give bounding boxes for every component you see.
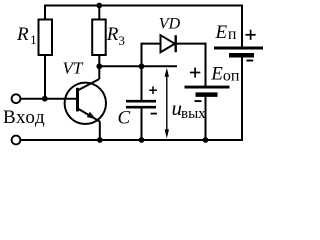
- wire emitter vertical: [99, 121, 101, 140]
- wire R3 bottom lead to collector node: [98, 55, 100, 66]
- node emitter / bottom rail: [97, 137, 103, 143]
- node Eop / bottom rail: [203, 137, 209, 143]
- wire input line to base: [21, 98, 77, 100]
- node capacitor top / diode: [139, 63, 145, 69]
- diode VD: [161, 35, 176, 52]
- transistor VT: [65, 79, 106, 124]
- wire diode cathode horizontal: [176, 43, 207, 45]
- node top of R3: [96, 3, 102, 9]
- svg-text:Eоп: Eоп: [210, 63, 240, 84]
- wire top rail: [45, 5, 242, 7]
- wire capacitor bottom lead: [141, 108, 143, 140]
- minus sign Ep: [246, 60, 253, 62]
- minus sign Eop: [195, 100, 202, 102]
- wire diode anode horizontal: [141, 43, 161, 45]
- svg-text:VD: VD: [159, 16, 181, 33]
- svg-text:C: C: [118, 108, 131, 129]
- wire R1 bottom lead to base line: [44, 55, 46, 99]
- svg-text:VT: VT: [63, 59, 84, 78]
- plus sign C: [149, 86, 157, 94]
- wire Eop top lead: [205, 43, 207, 86]
- node collector / R3: [96, 63, 102, 69]
- battery Eop: [185, 87, 230, 95]
- battery Ep: [214, 48, 263, 55]
- wire capacitor top lead: [141, 66, 143, 100]
- wire Ep minus to bottom rail: [241, 57, 243, 141]
- wire R3 top lead: [98, 5, 100, 20]
- wire bottom rail: [21, 139, 244, 141]
- minus sign C: [151, 113, 157, 115]
- arrow u_vyh double-headed: [165, 68, 169, 139]
- plus sign Eop: [190, 68, 200, 78]
- input terminal lower: [12, 136, 21, 145]
- resistor R1: [39, 20, 53, 56]
- wire Eop bottom lead: [205, 97, 207, 141]
- svg-text:Вход: Вход: [3, 107, 45, 128]
- resistor R3: [92, 20, 106, 56]
- capacitor C: [126, 101, 156, 107]
- wire right vertical to Ep plus plate: [241, 5, 243, 47]
- wire collector vertical: [98, 66, 100, 79]
- plus sign Ep: [246, 30, 256, 40]
- node capacitor bottom / bottom rail: [139, 137, 145, 143]
- wire output line: [99, 65, 177, 67]
- input terminal upper: [12, 94, 21, 103]
- node base / R1: [42, 96, 48, 102]
- wire diode anode vertical: [141, 44, 143, 67]
- wire R1 top lead: [44, 5, 46, 20]
